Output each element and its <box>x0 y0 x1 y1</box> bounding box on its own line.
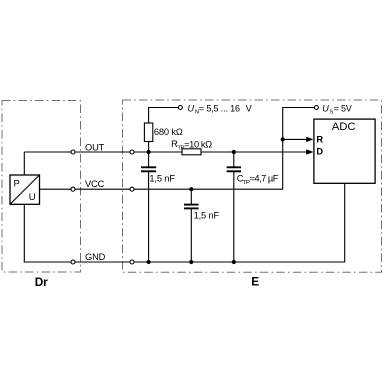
resistor 680k body <box>144 123 152 142</box>
resistor RTP body <box>182 149 201 155</box>
capacitor C2 plates <box>184 204 199 206</box>
wire R input <box>283 138 308 140</box>
junction GND/CTP <box>232 260 236 264</box>
wire GND horizontal <box>24 261 345 263</box>
svg-text:E: E <box>251 275 259 289</box>
capacitor C1 wire upper <box>148 152 150 168</box>
wire VCC horizontal <box>40 188 284 190</box>
wire sensor top vertical <box>23 152 25 176</box>
wire UN feed horizontal <box>148 107 178 109</box>
capacitor CTP wire lower <box>233 171 235 262</box>
terminal VCC sensor <box>71 187 75 191</box>
svg-text:U: U <box>29 192 36 203</box>
arrowhead R input <box>306 137 313 142</box>
ADC box <box>314 119 375 183</box>
capacitor C1 plates <box>141 166 156 168</box>
capacitor C2 wire upper <box>190 189 192 205</box>
terminal OUT ECU <box>130 150 134 154</box>
terminal GND ECU <box>130 260 134 264</box>
svg-text:D: D <box>316 147 323 157</box>
wire US vertical down to VCC <box>282 107 284 189</box>
terminal VCC ECU <box>130 187 134 191</box>
wire OUT horizontal (sensor to ADC D input) <box>24 151 307 153</box>
wire sensor bottom vertical <box>23 204 25 262</box>
wire US feed horizontal <box>283 107 315 109</box>
sensor block border Dr (dash-dot) <box>2 101 81 273</box>
svg-text:ADC: ADC <box>332 121 356 133</box>
svg-text:P: P <box>14 178 20 189</box>
svg-text:VCC: VCC <box>85 179 105 189</box>
junction GND/C2 <box>189 260 193 264</box>
junction R/US <box>281 137 285 141</box>
ECU block border E (dash-dot) <box>123 100 382 272</box>
svg-text:OUT: OUT <box>85 142 105 152</box>
junction VCC/C2 <box>189 187 193 191</box>
sensor box <box>10 175 40 204</box>
svg-text:680 kΩ: 680 kΩ <box>154 127 183 137</box>
junction D/CTP <box>232 150 236 154</box>
terminal UN <box>178 106 182 110</box>
junction GND/C1 <box>147 260 151 264</box>
svg-text:1,5 nF: 1,5 nF <box>194 210 220 220</box>
svg-text:GND: GND <box>85 252 106 262</box>
capacitor CTP wire upper <box>233 152 235 168</box>
terminal US <box>314 106 318 110</box>
svg-text:Dr: Dr <box>35 275 48 289</box>
capacitor CTP plates <box>227 166 241 168</box>
capacitor C1 wire lower (crosses VCC, to GND) <box>148 171 150 262</box>
wire 680k to OUT node <box>148 141 150 153</box>
arrowhead D input <box>306 149 313 154</box>
wire UN vertical to resistor <box>148 107 150 124</box>
junction OUT/680k <box>147 150 151 154</box>
terminal GND sensor <box>71 260 75 264</box>
svg-text:R: R <box>316 134 323 144</box>
svg-text:1,5 nF: 1,5 nF <box>149 173 175 183</box>
terminal OUT sensor <box>71 150 75 154</box>
wire ADC ground vertical <box>344 183 346 262</box>
sensor diagonal <box>10 175 39 204</box>
capacitor C2 wire lower <box>190 208 192 262</box>
